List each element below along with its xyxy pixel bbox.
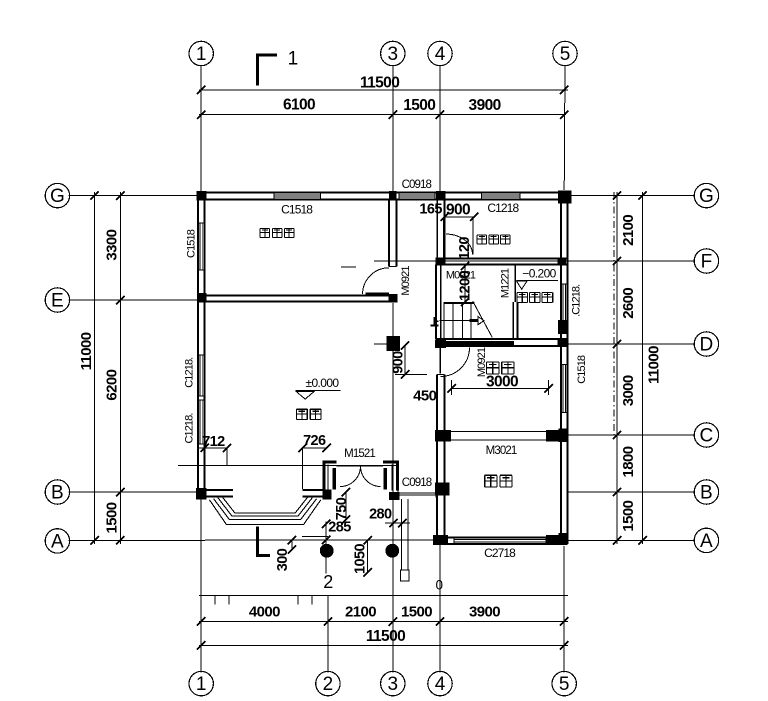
svg-text:1: 1: [288, 49, 298, 70]
stairs top edge: [443, 302, 474, 304]
stairs direction arrow: [470, 319, 479, 322]
door M1521 entry: left swing arc: [340, 466, 360, 487]
top dim line 11500: [199, 89, 568, 91]
column G3: [389, 191, 397, 201]
left dim line 11000: [94, 192, 96, 544]
column A4: [433, 535, 448, 545]
dim 300: [291, 540, 293, 549]
dim 726: [303, 447, 327, 449]
svg-text:2100: 2100: [620, 215, 637, 246]
svg-text:900: 900: [391, 351, 407, 374]
wall left (west exterior on grid 1): [197, 193, 199, 499]
window C1518 north (elder room): [274, 194, 321, 196]
column F4: [435, 259, 445, 266]
door M0921 kitchen: leaf: [439, 348, 441, 374]
corridor west wall F to D: [435, 265, 437, 339]
svg-text:6100: 6100: [283, 97, 315, 114]
svg-text:.C1218.: .C1218.: [571, 284, 583, 317]
svg-text:M3021: M3021: [486, 445, 517, 457]
grid line A left leader long: [69, 539, 433, 541]
svg-text:2600: 2600: [620, 288, 637, 319]
svg-text:6200: 6200: [104, 369, 121, 400]
svg-text:C1518: C1518: [576, 355, 588, 384]
svg-text:3000: 3000: [486, 374, 518, 391]
grid bubble 5 bottom: [552, 671, 576, 695]
svg-text:A: A: [700, 531, 713, 552]
svg-text:1200: 1200: [458, 271, 474, 301]
grid line 3 top extension: [392, 65, 394, 193]
grid bubble F right: [694, 249, 718, 273]
window C1218 east (storage): [562, 284, 564, 322]
grid bubble G left: [45, 183, 69, 207]
bottom boundary line with ticks: [199, 594, 568, 596]
window C1218 west upper (living): [199, 355, 201, 396]
wall right (east exterior on grid 5): [560, 199, 562, 537]
grid bubble 3 top: [381, 41, 405, 65]
wall G (north exterior): [198, 192, 568, 194]
svg-text:1500: 1500: [620, 500, 637, 531]
svg-text:−0.200: −0.200: [522, 267, 556, 281]
grid bubble D right: [694, 332, 718, 356]
svg-text:1800: 1800: [620, 446, 637, 477]
section mark 1: [256, 54, 259, 86]
section 2 line on grid 2: [325, 522, 327, 574]
column F5: [558, 258, 567, 265]
wall D (top of kitchen): [435, 338, 567, 340]
room label living (ke ting): [297, 409, 308, 419]
svg-text:2100: 2100: [345, 604, 376, 621]
svg-text:280: 280: [369, 507, 392, 523]
room label elder room (lao ren fang): [260, 228, 270, 237]
svg-text:712: 712: [202, 434, 225, 450]
grid line B left leader: [69, 491, 198, 493]
svg-text:M1521: M1521: [344, 448, 375, 460]
svg-text:0: 0: [436, 578, 443, 593]
room label kitchen (chu fang): [487, 362, 499, 374]
bay window nested trapezoids: [222, 497, 308, 513]
svg-text:3: 3: [388, 674, 399, 695]
top dim line 6100/1500/3900: [199, 114, 566, 116]
svg-text:C1518: C1518: [281, 203, 313, 217]
column C5w: [558, 429, 567, 442]
door M1521 entry: right swing arc: [360, 466, 380, 487]
grid line C right leader: [560, 434, 696, 436]
wall on grid 3 (east of elder room): [388, 199, 390, 266]
column C4: [435, 430, 451, 442]
grid bubble A left: [45, 529, 69, 553]
svg-text:11000: 11000: [646, 346, 663, 384]
column D3: [387, 336, 401, 351]
porch column right: [385, 544, 399, 558]
svg-text:5: 5: [560, 44, 571, 65]
dim extension line y=447.9 connector: [198, 447, 205, 449]
grid bubble 1 bottom: [189, 671, 213, 695]
door M0921 elder room: leaf: [366, 292, 390, 294]
window C1218 west lower (living): [199, 400, 201, 444]
column E3: [388, 294, 397, 303]
column at window jamb wall B: [389, 492, 400, 500]
wall E (interior, bottom of elder room): [198, 294, 397, 296]
stairs direction line: [440, 320, 471, 322]
svg-text:1: 1: [196, 674, 207, 695]
svg-text:G: G: [50, 186, 65, 207]
dim 165/900 bathroom door: [445, 216, 475, 218]
grid line 5 top extension: [563, 65, 566, 190]
svg-text:750: 750: [334, 497, 350, 520]
wall B right stub: [303, 489, 324, 491]
svg-text:C1218.: C1218.: [184, 357, 196, 388]
column C5r: [546, 430, 559, 442]
column A5: [546, 535, 561, 545]
wall C (M3021 threshold lines): [449, 431, 548, 433]
svg-text:C1218: C1218: [487, 201, 519, 215]
svg-text:B: B: [700, 483, 713, 504]
grid line 5 bottom extension: [563, 546, 565, 672]
svg-text:A: A: [51, 531, 64, 552]
bathroom west wall (grid 4): [436, 199, 438, 264]
svg-text:C: C: [700, 426, 714, 447]
storage west wall stub: [512, 302, 514, 339]
svg-text:B: B: [51, 483, 64, 504]
svg-text:4: 4: [435, 44, 446, 65]
door M1521 entry: lintel line: [337, 465, 383, 467]
kitchen west wall (grid 4, D to C): [436, 374, 438, 431]
grid bubble B right: [694, 480, 718, 504]
window C1518 west (elder room): [199, 223, 201, 270]
grid line 1 bottom extension: [200, 497, 202, 672]
svg-text:M0921: M0921: [400, 266, 412, 296]
dim 900 living side door: [404, 346, 406, 375]
grid bubble 2 bottom: [316, 671, 340, 695]
column 5 mid: [558, 320, 567, 334]
door M0921 bathroom: leaf: [443, 217, 446, 261]
svg-text:1050: 1050: [353, 544, 369, 574]
column A5w: [558, 533, 567, 544]
label up (shang): [433, 317, 435, 325]
room label storage (za wu jian): [517, 292, 528, 302]
left dim line 3300/6200/1500: [119, 192, 121, 544]
svg-text:D: D: [700, 335, 714, 356]
grid line A right leader: [568, 539, 695, 541]
svg-text:5: 5: [559, 674, 570, 695]
dim 280: [385, 522, 410, 524]
grid bubble A right: [694, 528, 718, 552]
grid line B right leader: [568, 491, 696, 493]
svg-text:F: F: [701, 252, 713, 273]
svg-text:450: 450: [413, 388, 436, 405]
svg-text:11000: 11000: [78, 332, 95, 370]
window C1518 east (kitchen): [562, 364, 564, 412]
dim 750: [345, 492, 347, 520]
svg-text:C0918: C0918: [402, 477, 432, 489]
dim 712: [205, 447, 227, 449]
svg-text:4: 4: [435, 674, 446, 695]
dim 1050: [367, 540, 369, 572]
column B4: [435, 483, 450, 496]
stairs break line: [473, 301, 493, 337]
porch roof edge line: [178, 465, 397, 467]
window C0918 at wall B (porch): [398, 492, 436, 494]
svg-text:3: 3: [388, 44, 399, 65]
svg-text:C2718: C2718: [484, 546, 516, 560]
grid bubble 4 bottom: [428, 671, 452, 695]
grid line 2 bottom extension: [327, 595, 329, 672]
wall B (south of living room) left stub: [198, 489, 233, 491]
dim 3000 kitchen: [452, 387, 549, 389]
svg-text:2: 2: [323, 572, 333, 592]
svg-text:G: G: [699, 186, 714, 207]
room label dining (can ting): [485, 475, 497, 487]
svg-text:C1518: C1518: [186, 229, 198, 258]
svg-text:C0918: C0918: [402, 179, 432, 191]
bottom dim line 4000/2100/1500/3900: [199, 621, 568, 623]
grid bubble C right: [694, 423, 718, 447]
grid bubble 3 bottom: [381, 671, 405, 695]
grid bubble B left: [45, 480, 69, 504]
door M0921 elder room: swing arc: [363, 268, 389, 294]
porch rail east end block: [401, 570, 410, 581]
grid line D right leader: [568, 343, 696, 345]
column G4: [436, 191, 445, 201]
door M0921 bathroom: swing arc: [446, 234, 473, 255]
svg-text:1: 1: [196, 44, 207, 65]
column G5: [558, 191, 571, 204]
grid line 4 bottom extension: [439, 544, 441, 672]
svg-text:120: 120: [457, 237, 473, 260]
svg-text:4000: 4000: [249, 604, 280, 621]
porch rail east double line: [401, 499, 403, 570]
window C0918 north (grid 3-4): [399, 194, 435, 196]
right dim line 11000: [642, 192, 644, 544]
svg-text:1500: 1500: [401, 604, 432, 621]
svg-text:1500: 1500: [104, 502, 121, 533]
svg-text:3900: 3900: [469, 604, 500, 621]
stairs risers: [443, 304, 445, 339]
svg-text:2: 2: [323, 674, 334, 695]
svg-text:726: 726: [303, 433, 326, 449]
grid line 3 extension through plan: [392, 303, 394, 672]
wall F (bottom of bathroom): [435, 257, 567, 259]
svg-text:3000: 3000: [620, 375, 637, 406]
grid line G left leader: [69, 195, 198, 197]
section 2 cut mark L: [256, 527, 259, 557]
roof overhang dash-dot line: [613, 192, 615, 437]
svg-text:900: 900: [446, 202, 470, 219]
column D4: [435, 340, 446, 348]
column G1: [197, 191, 207, 201]
column B2: [323, 490, 332, 500]
svg-text:M1221: M1221: [500, 268, 512, 298]
grid line 4 top extension: [439, 65, 441, 193]
grid bubble 1 top: [189, 41, 213, 65]
bottom dim line 11500: [199, 644, 568, 646]
svg-text:3900: 3900: [469, 97, 501, 114]
door M1521 entry: left jamb: [323, 460, 326, 490]
svg-text:C1218.: C1218.: [184, 413, 196, 444]
svg-text:285: 285: [328, 520, 351, 536]
window C2718 south (dining): [454, 539, 546, 541]
grid line 1 top extension: [200, 65, 202, 193]
porch step line: [302, 536, 328, 538]
wall A (south exterior of dining): [433, 537, 568, 539]
svg-text:300: 300: [275, 548, 291, 571]
porch column left: [320, 544, 334, 558]
svg-text:11500: 11500: [360, 75, 399, 92]
grid bubble G right: [694, 183, 718, 207]
wall D solid fill under stairs: [435, 341, 514, 346]
door M0921 bathroom: jamb line: [472, 218, 474, 255]
room label bathroom (wei sheng jian): [477, 235, 487, 244]
svg-text:3300: 3300: [104, 229, 121, 260]
column B1: [196, 488, 206, 500]
column E1: [197, 293, 207, 302]
F extension dash left: [341, 266, 356, 268]
grid bubble E left: [45, 288, 69, 312]
dining west wall (grid 4, C to A): [436, 440, 438, 538]
door M1521 entry: right jamb: [396, 460, 399, 490]
grid bubble 5 top: [553, 41, 577, 65]
column D5: [558, 338, 567, 345]
svg-text:E: E: [51, 291, 64, 312]
svg-text:165: 165: [419, 202, 442, 218]
dim 1200 corridor: [464, 266, 466, 302]
grid line G right leader: [568, 195, 696, 197]
grid line F right leader: [374, 260, 695, 262]
grid bubble 4 top: [428, 41, 452, 65]
svg-text:1500: 1500: [403, 97, 435, 114]
grid line E left leader: [69, 299, 198, 301]
door M0921 kitchen: swing arc: [441, 348, 470, 377]
svg-text:11500: 11500: [366, 628, 405, 645]
door M1221 storage: leaf: [514, 264, 516, 303]
dim 285: [325, 522, 327, 540]
right dim line 2100/2600/3000/1800/1500: [616, 192, 618, 544]
window C1218 north (bathroom): [482, 194, 521, 196]
svg-text:±0.000: ±0.000: [305, 376, 339, 390]
